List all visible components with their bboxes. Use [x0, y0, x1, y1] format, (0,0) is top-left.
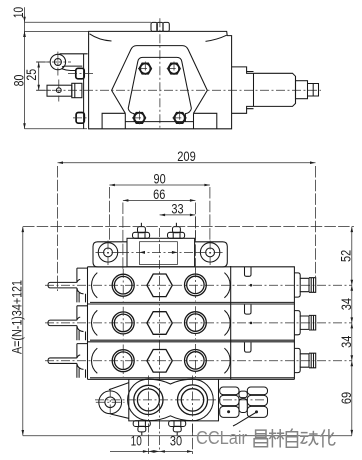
A dim arrows	[22, 227, 25, 436]
mounting plate edge	[83, 54, 85, 129]
watermark glyph lin	[269, 429, 284, 448]
inlet port 2	[178, 385, 208, 415]
clevis crosshair	[36, 52, 71, 76]
dim 209 extensions	[58, 166, 316, 291]
dim 209 line	[58, 162, 316, 164]
bolt B4	[172, 111, 187, 125]
spool cap row3	[294, 348, 315, 372]
dim 80 line	[24, 31, 26, 128]
dim 66 extensions	[123, 203, 195, 272]
spool end block 2	[76, 113, 84, 124]
rod vertical centerline	[58, 80, 60, 102]
bolt B2	[167, 62, 182, 77]
dim 25 extensions	[37, 62, 52, 90]
dim 80 extensions	[25, 31, 89, 128]
inlet crosshairs	[95, 376, 264, 434]
top stud left	[133, 223, 150, 239]
bottom dim extensions	[148, 424, 192, 454]
svg-text:25: 25	[24, 69, 39, 81]
section boundary 1-2	[88, 303, 295, 305]
left foot	[102, 113, 125, 129]
rod end body	[47, 83, 82, 97]
dim 25 arrows	[37, 62, 40, 90]
dim 10 extension	[24, 7, 26, 36]
relief valve nut 2	[247, 387, 267, 417]
dim 90 extensions	[109, 187, 209, 241]
vertical centerline of cap	[159, 18, 161, 129]
row 3 ports	[112, 350, 206, 373]
section boundary 2-3	[88, 341, 295, 343]
dim 33 extension	[194, 217, 196, 271]
dim 25 line	[38, 62, 40, 90]
svg-text:A=(N-1)34+121: A=(N-1)34+121	[10, 280, 25, 354]
row 3 right fillet	[224, 348, 230, 373]
row 3 cast fillets	[92, 348, 98, 373]
bolt B1	[138, 62, 153, 77]
bottom dim arrows	[143, 450, 193, 453]
cover outer outline	[112, 46, 208, 114]
lever bar row1	[48, 282, 77, 288]
svg-text:209: 209	[177, 149, 196, 164]
clevis arm	[60, 54, 88, 71]
lever bar row2	[48, 320, 77, 326]
base mounting eye	[99, 391, 122, 414]
cap centerline through block	[120, 251, 198, 253]
dim 66 arrows	[123, 199, 195, 202]
row 1 right fillet	[224, 273, 230, 298]
base block outline	[129, 379, 219, 421]
step cylinder	[296, 81, 308, 99]
spool cylinder	[247, 72, 296, 109]
svg-text:69: 69	[339, 392, 354, 404]
spool end block 1	[76, 68, 84, 79]
cover inner fillets	[128, 109, 191, 122]
dim 10 line	[25, 21, 152, 23]
svg-text:30: 30	[170, 434, 183, 449]
dim 33 arrows	[160, 214, 196, 217]
svg-text:34: 34	[339, 298, 354, 311]
dim 33 line	[160, 214, 196, 216]
relief valve neck	[239, 391, 247, 412]
section mating lines	[90, 302, 294, 377]
body outline	[89, 31, 232, 128]
breather cap	[151, 22, 169, 31]
dim 66 line	[123, 199, 195, 201]
cap right ear	[195, 242, 228, 267]
spool cap row1	[294, 273, 315, 297]
lever bar row3	[48, 358, 77, 364]
watermark glyph dong	[300, 431, 318, 446]
dim 90 arrows	[109, 184, 209, 187]
lever clevis circle	[50, 54, 65, 69]
cast web arc left	[90, 34, 112, 41]
spool chamber divider	[230, 266, 232, 379]
detent ball row2	[250, 322, 253, 325]
row 2 right fillet	[224, 310, 230, 335]
bolt B3	[132, 111, 147, 125]
dim 10 arrows	[23, 17, 26, 37]
row 3 port centerlines	[123, 344, 195, 377]
spool cap row2	[294, 311, 315, 335]
watermark glyph hua	[320, 429, 335, 448]
cap left ear	[93, 242, 127, 267]
bottom stud left	[133, 421, 150, 436]
lever plate row3	[77, 344, 88, 378]
detent ball row1	[250, 284, 253, 287]
right dim line	[351, 227, 353, 436]
spool 2 axis	[73, 117, 87, 119]
dim 209 arrows	[58, 161, 316, 164]
row 2 ports	[112, 312, 206, 335]
cap center block	[127, 238, 195, 266]
right extension top	[23, 226, 354, 228]
left A dim line	[22, 227, 24, 436]
right foot	[194, 113, 217, 129]
lever plate row1	[77, 268, 88, 302]
punch marks	[227, 410, 230, 413]
svg-text:10: 10	[131, 434, 143, 449]
inlet boss peanut	[128, 379, 214, 421]
eye gussets	[109, 383, 129, 419]
spool 1 axis	[68, 73, 95, 75]
valve body outline	[88, 267, 295, 380]
row 1 cast fillets	[92, 273, 98, 298]
A bottom extension	[23, 435, 352, 437]
svg-text:90: 90	[154, 171, 167, 186]
watermark glyph chang	[254, 430, 267, 447]
row 1 port centerlines	[123, 269, 195, 302]
spool bonnet flange	[232, 67, 254, 113]
cap inner arrows	[140, 251, 178, 254]
svg-text:CCLair: CCLair	[196, 427, 247, 448]
bottom dim line	[110, 450, 193, 452]
lever plate row2	[77, 306, 88, 340]
eye crosshair	[96, 389, 125, 417]
cylinder end line	[254, 73, 296, 106]
watermark glyph zi	[286, 429, 297, 448]
right dim ticks and arrows	[351, 227, 354, 436]
row axes	[45, 285, 352, 361]
svg-text:10: 10	[11, 7, 26, 19]
end nipple	[308, 84, 319, 97]
bottom stud right	[169, 421, 186, 436]
inlet port 1	[134, 385, 163, 414]
leader curl	[233, 412, 256, 426]
dim 80 arrows	[23, 31, 26, 128]
row 2 port centerlines	[123, 306, 195, 339]
svg-text:34: 34	[339, 335, 354, 348]
cover inner outline	[128, 57, 191, 108]
detent notch row2	[245, 305, 252, 315]
main horizontal centerline	[36, 89, 321, 91]
svg-text:66: 66	[153, 187, 165, 202]
dim 90 line	[109, 184, 209, 186]
top stud right	[168, 223, 185, 239]
section boundary 3-base	[88, 378, 295, 380]
right ear crosshair	[198, 241, 223, 266]
row 2 cast fillets	[92, 310, 98, 335]
relief valve nut 1	[220, 387, 239, 417]
cast web arc right	[206, 35, 227, 41]
cap inner rect	[140, 242, 178, 265]
vertical centerline	[158, 228, 160, 452]
detent notch row1	[245, 267, 252, 277]
left ear crosshair	[96, 241, 121, 266]
svg-text:33: 33	[171, 201, 183, 216]
svg-text:52: 52	[339, 250, 354, 262]
detent notch row3	[245, 342, 252, 352]
row 1 ports	[112, 274, 206, 297]
cover bottom ledge	[125, 121, 193, 123]
